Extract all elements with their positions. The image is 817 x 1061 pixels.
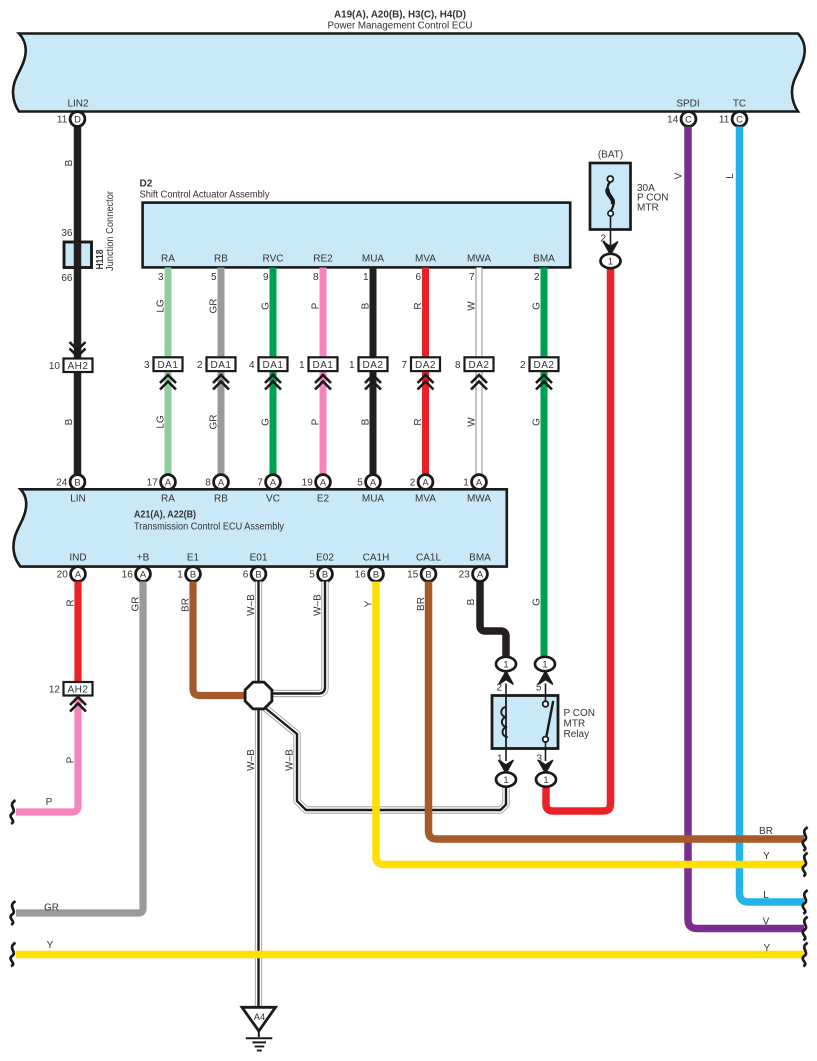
- power management control ECU band: [13, 34, 805, 112]
- svg-text:10: 10: [49, 361, 61, 372]
- fuse 30A P CON MTR: [590, 163, 631, 230]
- chevron arrows up from DA1: [315, 375, 331, 390]
- transmission control ECU assembly band: [13, 489, 506, 566]
- wire R from IND to AH2: [74, 582, 81, 683]
- svg-text:BR: BR: [180, 598, 191, 612]
- connector box 8 DA2: [465, 357, 494, 371]
- svg-text:Power Management Control ECU: Power Management Control ECU: [328, 21, 473, 32]
- svg-text:20: 20: [57, 570, 69, 581]
- wire W-B from E02 to junction: [272, 582, 325, 694]
- connector box 7 DA2: [411, 357, 440, 371]
- svg-text:P: P: [311, 418, 322, 425]
- svg-text:W–B: W–B: [246, 749, 257, 771]
- svg-text:A: A: [422, 476, 429, 487]
- svg-text:GR: GR: [130, 597, 141, 612]
- svg-text:2: 2: [534, 272, 540, 283]
- TCU bottom pin 6 circle B: [243, 567, 266, 582]
- svg-text:1: 1: [503, 658, 508, 669]
- svg-text:E02: E02: [316, 553, 334, 564]
- svg-text:A21(A), A22(B): A21(A), A22(B): [134, 510, 196, 521]
- svg-text:V: V: [763, 917, 770, 928]
- shift control actuator assembly D2 box: [143, 203, 571, 268]
- wire BR from CA1L to right edge: [429, 582, 805, 840]
- wire LG column RA: [165, 268, 172, 475]
- arrow up into ellipse pin 2: [499, 672, 513, 685]
- svg-text:B: B: [466, 598, 477, 605]
- fuse pin 2 lead: [610, 216, 612, 247]
- svg-text:19: 19: [302, 478, 314, 489]
- svg-text:BMA: BMA: [533, 254, 555, 265]
- TCU bottom pin 5 circle B: [309, 567, 332, 582]
- svg-text:R: R: [413, 302, 424, 309]
- svg-text:B: B: [64, 159, 75, 166]
- svg-text:MWA: MWA: [467, 494, 491, 505]
- svg-text:P CON: P CON: [564, 708, 596, 719]
- wire GR from +B to left edge: [16, 582, 143, 914]
- wire Y across bottom: [16, 951, 804, 959]
- relay coil: [501, 696, 508, 749]
- svg-text:3: 3: [144, 360, 150, 371]
- svg-text:V: V: [674, 172, 685, 179]
- ellipse connector 1 below relay pin 3: [536, 772, 556, 786]
- svg-text:1: 1: [503, 774, 508, 785]
- arrow down from fuse: [604, 242, 618, 255]
- svg-text:Y: Y: [47, 940, 54, 951]
- svg-text:23: 23: [459, 570, 471, 581]
- connector box 1 DA2: [359, 357, 388, 371]
- svg-text:1: 1: [463, 478, 469, 489]
- ellipse connector 1 above relay pin 5: [535, 657, 555, 671]
- svg-text:1: 1: [299, 360, 305, 371]
- relay box P CON MTR Relay: [492, 696, 558, 749]
- arrow down from relay pin 3: [539, 761, 553, 774]
- junction connector H118 box: [64, 242, 92, 268]
- TCU pin 5 circle A (MUA): [357, 475, 380, 490]
- wire V from SPDI to right edge: [688, 127, 804, 929]
- svg-text:W–B: W–B: [312, 594, 323, 616]
- svg-text:(BAT): (BAT): [598, 150, 623, 161]
- svg-text:17: 17: [147, 478, 159, 489]
- chevron arrows up from DA2: [536, 375, 552, 390]
- svg-text:BR: BR: [416, 597, 427, 611]
- TCU bottom pin 15 circle B: [407, 567, 436, 582]
- svg-text:DA1: DA1: [211, 360, 232, 371]
- arrow down from relay pin 1: [499, 761, 513, 774]
- wire GR column RB: [218, 268, 225, 475]
- chevron arrows up into AH2: [70, 697, 86, 712]
- svg-text:7: 7: [401, 360, 407, 371]
- svg-text:GR: GR: [44, 903, 59, 914]
- svg-text:7: 7: [469, 272, 475, 283]
- svg-text:MTR: MTR: [637, 202, 659, 213]
- svg-text:MUA: MUA: [362, 254, 385, 265]
- svg-text:15: 15: [407, 570, 419, 581]
- svg-text:G: G: [532, 302, 543, 310]
- svg-text:5: 5: [309, 570, 315, 581]
- svg-text:24: 24: [56, 478, 68, 489]
- svg-text:DA2: DA2: [469, 360, 490, 371]
- svg-text:Y: Y: [763, 943, 770, 954]
- svg-text:L: L: [725, 173, 736, 179]
- svg-text:B: B: [74, 476, 80, 487]
- wire B column MUA: [370, 268, 377, 475]
- svg-text:5: 5: [211, 272, 217, 283]
- svg-text:SPDI: SPDI: [676, 99, 699, 110]
- ellipse connector 1 above relay pin 2: [496, 657, 516, 671]
- TCU bottom pin 16 circle B: [355, 567, 384, 582]
- arrow up into ellipse pin 5: [539, 672, 553, 685]
- TCU pin 1 circle A (MWA): [463, 475, 486, 490]
- relay pin 3 lead: [545, 749, 547, 762]
- wire P column RE2: [320, 268, 327, 475]
- svg-text:A: A: [75, 568, 82, 579]
- svg-text:MUA: MUA: [362, 494, 385, 505]
- svg-text:7: 7: [257, 478, 263, 489]
- svg-text:66: 66: [61, 273, 73, 284]
- svg-text:G: G: [531, 598, 542, 606]
- svg-text:D2: D2: [140, 179, 153, 190]
- svg-text:Shift Control Actuator Assembl: Shift Control Actuator Assembly: [140, 190, 270, 201]
- svg-text:8: 8: [455, 360, 461, 371]
- svg-text:A4: A4: [254, 1011, 265, 1022]
- svg-text:Y: Y: [363, 600, 374, 607]
- svg-text:B: B: [361, 418, 372, 425]
- chevron arrows up from DA2: [418, 375, 434, 390]
- svg-text:14: 14: [667, 115, 679, 126]
- svg-text:A: A: [320, 476, 327, 487]
- svg-text:1: 1: [349, 360, 355, 371]
- svg-text:11: 11: [57, 115, 68, 126]
- svg-text:B: B: [373, 568, 379, 579]
- ECU pin 11 circle C (TC): [719, 112, 747, 127]
- TCU pin 7 circle A (VC): [257, 475, 280, 490]
- svg-text:R: R: [65, 599, 76, 606]
- svg-text:GR: GR: [209, 415, 220, 430]
- TCU pin 8 circle A (RB): [205, 475, 228, 490]
- svg-text:A: A: [477, 568, 484, 579]
- svg-text:6: 6: [243, 570, 249, 581]
- svg-text:RE2: RE2: [313, 254, 333, 265]
- svg-text:AH2: AH2: [68, 684, 89, 695]
- wire R from fuse to relay pin 3: [546, 268, 611, 811]
- svg-text:R: R: [413, 418, 424, 425]
- relay switch: [543, 696, 554, 749]
- wire L from TC to right edge: [740, 127, 805, 903]
- svg-text:G: G: [261, 418, 272, 426]
- svg-text:A19(A), A20(B), H3(C), H4(D): A19(A), A20(B), H3(C), H4(D): [334, 10, 466, 21]
- svg-text:A: A: [270, 476, 277, 487]
- ground A4: [242, 1007, 276, 1050]
- svg-text:Transmission Control ECU Assem: Transmission Control ECU Assembly: [134, 522, 284, 533]
- wire P from AH2 to left edge: [16, 698, 78, 812]
- svg-text:A: A: [218, 476, 225, 487]
- svg-text:G: G: [532, 418, 543, 426]
- ellipse connector 1 below fuse: [601, 254, 621, 268]
- svg-text:RA: RA: [161, 254, 175, 265]
- svg-text:A: A: [165, 476, 172, 487]
- svg-text:6: 6: [415, 272, 421, 283]
- wire B from LIN2 down through H118 to pin 24 LIN: [74, 127, 82, 475]
- svg-text:P: P: [311, 302, 322, 309]
- chevron arrows up from DA2: [365, 375, 381, 390]
- chevron arrows down into AH2: [70, 342, 86, 357]
- TCU bottom pin 16 circle A: [122, 567, 151, 582]
- svg-text:A: A: [140, 568, 147, 579]
- TCU bottom pin 23 circle A: [459, 567, 488, 582]
- svg-text:1: 1: [542, 658, 547, 669]
- svg-text:12: 12: [49, 685, 61, 696]
- connector box 2 DA2: [530, 357, 559, 371]
- svg-text:1: 1: [543, 774, 548, 785]
- wire BR from E1 to junction: [193, 582, 246, 696]
- wire W column MWA: [476, 268, 483, 475]
- svg-text:Junction Connector: Junction Connector: [105, 190, 116, 271]
- svg-text:B: B: [361, 302, 372, 309]
- svg-text:DA1: DA1: [158, 360, 179, 371]
- svg-text:P: P: [46, 797, 53, 808]
- svg-text:8: 8: [205, 478, 211, 489]
- connector box 2 DA1: [207, 357, 236, 371]
- svg-text:9: 9: [263, 272, 269, 283]
- svg-text:G: G: [261, 302, 272, 310]
- svg-text:DA1: DA1: [313, 360, 334, 371]
- svg-text:RA: RA: [161, 494, 175, 505]
- svg-text:W–B: W–B: [246, 594, 257, 616]
- svg-text:AH2: AH2: [68, 361, 89, 372]
- svg-text:1: 1: [608, 255, 613, 266]
- chevron arrows up from DA1: [160, 375, 176, 390]
- svg-text:RB: RB: [214, 254, 228, 265]
- svg-text:B: B: [322, 568, 328, 579]
- svg-text:+B: +B: [137, 553, 150, 564]
- chevron arrows up from DA1: [213, 375, 229, 390]
- svg-text:2: 2: [197, 360, 203, 371]
- svg-text:LG: LG: [156, 415, 167, 429]
- svg-text:Y: Y: [763, 851, 770, 862]
- svg-text:RVC: RVC: [263, 254, 284, 265]
- svg-text:BMA: BMA: [469, 553, 491, 564]
- svg-text:C: C: [685, 113, 692, 124]
- connector box 3 DA1: [154, 357, 183, 371]
- wire W-B from E01 through junction to ground: [255, 582, 262, 1007]
- svg-text:36: 36: [61, 228, 73, 239]
- relay pin 5 lead: [545, 684, 547, 696]
- TCU pin 2 circle A (MVA): [410, 475, 433, 490]
- svg-text:W: W: [467, 417, 478, 427]
- ellipse connector 1 below relay pin 1: [496, 772, 516, 786]
- svg-text:CA1L: CA1L: [416, 553, 441, 564]
- ECU pin 14 circle C (SPDI): [667, 112, 696, 127]
- connector box 4 DA1: [259, 357, 288, 371]
- svg-text:5: 5: [357, 478, 363, 489]
- svg-text:RB: RB: [214, 494, 228, 505]
- svg-text:MVA: MVA: [415, 494, 436, 505]
- svg-text:E2: E2: [317, 494, 330, 505]
- wire B from BMA to relay pin 2: [480, 582, 506, 658]
- svg-text:BR: BR: [759, 826, 773, 837]
- chevron arrows up from DA2: [471, 375, 487, 390]
- chevron arrows up from DA1: [265, 375, 281, 390]
- svg-text:MTR: MTR: [564, 719, 586, 730]
- svg-text:GR: GR: [209, 299, 220, 314]
- TCU pin 24 circle B (LIN): [56, 475, 85, 490]
- svg-text:2: 2: [520, 360, 526, 371]
- svg-text:B: B: [64, 418, 75, 425]
- svg-text:W–B: W–B: [284, 749, 295, 771]
- svg-text:MWA: MWA: [467, 254, 491, 265]
- svg-text:B: B: [190, 568, 196, 579]
- svg-text:LIN2: LIN2: [67, 99, 89, 110]
- svg-text:P: P: [65, 756, 76, 763]
- svg-text:LG: LG: [156, 299, 167, 313]
- relay pin 1 lead: [505, 749, 507, 762]
- svg-text:8: 8: [313, 272, 319, 283]
- torn edge squiggles left: [11, 800, 16, 824]
- svg-text:16: 16: [355, 570, 367, 581]
- relay pin 2 lead: [505, 684, 507, 696]
- svg-text:2: 2: [410, 478, 416, 489]
- svg-text:Relay: Relay: [564, 729, 590, 740]
- wire R column MVA: [422, 268, 429, 475]
- svg-text:L: L: [763, 890, 769, 901]
- TCU bottom pin 20 circle A: [57, 567, 86, 582]
- torn edge squiggles right: [803, 827, 808, 851]
- svg-text:3: 3: [158, 272, 164, 283]
- connector box 1 DA1: [309, 357, 338, 371]
- svg-text:B: B: [255, 568, 261, 579]
- svg-text:DA2: DA2: [363, 360, 384, 371]
- connector box 10 AH2: [64, 359, 93, 373]
- svg-text:1: 1: [363, 272, 369, 283]
- svg-text:E1: E1: [187, 553, 200, 564]
- svg-text:DA1: DA1: [263, 360, 284, 371]
- TCU pin 19 circle A (E2): [302, 475, 331, 490]
- svg-text:11: 11: [719, 115, 730, 126]
- svg-text:A: A: [476, 476, 483, 487]
- ECU pin 11 circle D: [57, 112, 85, 127]
- svg-text:W: W: [467, 301, 478, 311]
- svg-text:CA1H: CA1H: [363, 553, 390, 564]
- svg-text:MVA: MVA: [415, 254, 436, 265]
- svg-text:TC: TC: [733, 99, 746, 110]
- svg-text:E01: E01: [250, 553, 268, 564]
- svg-text:DA2: DA2: [415, 360, 436, 371]
- svg-text:16: 16: [122, 570, 134, 581]
- svg-text:C: C: [736, 113, 743, 124]
- TCU pin 17 circle A (RA): [147, 475, 176, 490]
- TCU bottom pin 1 circle B: [177, 567, 200, 582]
- wire W-B from junction to relay pin 1: [264, 707, 506, 810]
- svg-text:B: B: [425, 568, 431, 579]
- svg-text:A: A: [370, 476, 377, 487]
- connector box 12 AH2: [64, 682, 93, 696]
- svg-text:D: D: [74, 113, 81, 124]
- wire G column BMA: [541, 268, 548, 658]
- wire Y from CA1H to right edge: [376, 582, 804, 865]
- svg-text:DA2: DA2: [534, 360, 555, 371]
- svg-text:1: 1: [177, 570, 183, 581]
- svg-text:4: 4: [249, 360, 255, 371]
- svg-text:IND: IND: [69, 553, 86, 564]
- svg-text:VC: VC: [266, 494, 280, 505]
- svg-text:LIN: LIN: [70, 494, 86, 505]
- junction octagon node: [245, 682, 272, 709]
- wire G column RVC: [270, 268, 277, 475]
